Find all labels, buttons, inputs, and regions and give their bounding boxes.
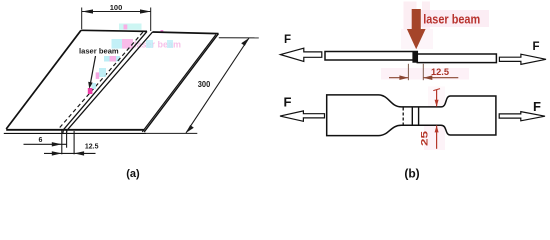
ghost magenta dash on top edge — [161, 30, 164, 33]
dimension 100 extension line left — [81, 8, 83, 30]
dimension 25 line bottom (red) — [436, 125, 438, 148]
dimension 300 line — [186, 38, 249, 133]
extension line weld left — [61, 131, 63, 155]
dimension 12.5 arrow left — [399, 75, 408, 80]
dimension 300 extension top — [219, 37, 259, 39]
dimension 12.5 arrow left — [52, 151, 62, 155]
svg-text:F: F — [284, 95, 292, 110]
weld solid line 1 — [411, 107, 413, 125]
dimension 12.5 extension right (brown) — [422, 64, 424, 80]
svg-text:300: 300 — [198, 79, 211, 89]
svg-text:F: F — [533, 99, 541, 114]
plate left edge — [6, 30, 81, 129]
tensile specimen outline — [327, 95, 496, 136]
dimension 25 arrow top (down) — [435, 100, 439, 107]
svg-text:12.5: 12.5 — [85, 144, 99, 151]
dimension 12.5 arrow right — [423, 75, 432, 80]
svg-text:laser beam: laser beam — [79, 47, 119, 56]
svg-text:12.5: 12.5 — [431, 66, 449, 77]
jpeg pink halo around 12.5 dimension (b) — [381, 68, 469, 80]
plate top edge left — [81, 30, 147, 31]
magenta dashes on laser line — [92, 68, 107, 89]
dimension 300 arrow top — [241, 38, 249, 46]
dimension 12.5 arrow right — [74, 151, 84, 155]
svg-text:6: 6 — [39, 137, 43, 144]
jpeg pink halo around laser beam label (b) — [418, 10, 489, 27]
dimension 12.5 extension left (brown) — [407, 64, 409, 80]
ghost artifact band above plate — [119, 24, 142, 30]
force arrow bottom right — [499, 112, 545, 121]
jpeg pink halo around 25 dimension (b) — [428, 87, 445, 107]
svg-text:laser beam: laser beam — [423, 11, 480, 26]
laser beam pointer arrow — [90, 56, 95, 84]
strip left half — [325, 52, 417, 61]
svg-text:F: F — [533, 41, 540, 53]
dimension 12.5 line right — [74, 152, 95, 154]
weld dashed line in specimen — [402, 108, 404, 125]
svg-text:100: 100 — [110, 3, 123, 12]
dimension 25 tick top — [433, 89, 440, 91]
dimension 6 line — [24, 143, 67, 145]
weld nugget (black) — [412, 52, 417, 63]
weld seam through thickness — [62, 129, 65, 134]
dimension 12.5 line left — [44, 152, 74, 154]
weld solid line 2 — [418, 107, 420, 125]
dimension 300 extension bottom — [144, 132, 197, 134]
dimension 12.5 line left — [389, 77, 408, 79]
plate bottom front edge — [6, 129, 144, 131]
plate bottom thickness line — [4, 132, 146, 134]
svg-text:25: 25 — [419, 130, 430, 146]
extension line weld right — [73, 131, 75, 154]
laser arrow (red) head — [407, 29, 426, 49]
force arrow top right — [499, 54, 546, 64]
weld dashed laser line — [59, 32, 143, 128]
svg-text:(a): (a) — [126, 168, 140, 180]
weld seam line A — [64, 31, 147, 129]
plate right edge outer — [144, 34, 218, 132]
dimension 6 arrow — [52, 142, 62, 146]
dimension 100 extension line right — [150, 8, 152, 32]
ghost artifact blocks below label — [104, 56, 120, 62]
strip right half — [417, 54, 496, 63]
dimension 25 line top (red) — [436, 90, 438, 107]
plate right edge inner — [142, 35, 216, 132]
laser spot red dot — [88, 88, 93, 94]
plate top edge right — [153, 32, 219, 34]
svg-text:(b): (b) — [404, 167, 419, 181]
jpeg pink halo around laser arrow — [404, 2, 417, 30]
dimension 12.5 line right — [423, 77, 458, 79]
weld seam line B — [67, 32, 152, 130]
force arrow top left — [281, 48, 322, 61]
dimension 100 arrow right — [140, 9, 151, 13]
dimension 25 arrow bottom (up) — [435, 125, 439, 132]
svg-text:F: F — [284, 34, 291, 46]
dimension 100 arrow left — [82, 9, 93, 13]
dimension 100 line — [82, 11, 151, 13]
laser arrow (red) shaft — [412, 9, 421, 29]
force arrow bottom left — [280, 111, 325, 121]
ghost artifact text laser beam — [112, 39, 182, 50]
dimension 300 arrow bottom — [186, 125, 194, 133]
extension line weld mid — [66, 131, 68, 148]
